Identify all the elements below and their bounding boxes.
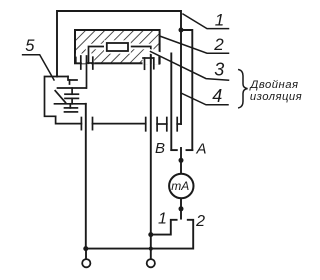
white notch right connector <box>143 54 159 64</box>
brace double insulation <box>239 70 248 108</box>
corner piece <box>157 54 161 64</box>
leader line 3 <box>151 52 229 81</box>
resistor halo <box>104 40 131 53</box>
meter bottom lead <box>180 198 182 218</box>
wire: jog to A branch <box>181 30 192 150</box>
contact B arm <box>171 149 177 151</box>
leader line 3 halo <box>151 52 163 56</box>
plate on line 4 <box>176 118 178 131</box>
switch blade <box>55 91 65 103</box>
svg-text:3: 3 <box>214 60 224 80</box>
node dot bus left <box>83 246 88 251</box>
step tick <box>69 80 71 84</box>
terminal circle left <box>82 259 90 267</box>
node dot contact1/lead <box>148 232 153 237</box>
hatch drop line <box>86 56 88 88</box>
svg-text:изоляция: изоляция <box>250 91 302 103</box>
svg-text:1: 1 <box>215 10 224 29</box>
contact A arm <box>187 149 193 151</box>
leader line 5 <box>23 55 54 80</box>
svg-text:4: 4 <box>212 86 222 106</box>
connector R bar <box>87 62 94 64</box>
right connector pin b <box>153 58 155 69</box>
svg-text:2: 2 <box>213 35 224 54</box>
wire: top measuring loop <box>57 11 181 77</box>
metal body (hatched block) <box>75 30 160 63</box>
node dot above meter <box>179 158 184 163</box>
thermostat box 5 <box>45 77 69 117</box>
heating element lead loop <box>89 47 151 64</box>
cap stem up <box>71 88 73 94</box>
box outlet wire <box>56 116 82 123</box>
capacitor (body plates) left plate <box>156 118 158 131</box>
contact bar upper <box>58 87 87 89</box>
middle horizontal wire <box>93 123 146 125</box>
node dot bus right <box>149 247 153 251</box>
left main wire <box>85 104 87 249</box>
right connector pin a <box>144 58 146 69</box>
svg-text:mA: mA <box>171 179 189 193</box>
cap2 stem <box>69 104 71 108</box>
heating element lead channel (white halo) <box>89 47 151 64</box>
milliammeter circle <box>169 174 193 198</box>
right connector bar <box>143 57 154 59</box>
node dot below meter <box>179 206 184 211</box>
node: junction dot top <box>179 28 184 33</box>
cap stem down <box>71 98 73 103</box>
wire: insulation layer line to B <box>170 54 172 151</box>
white notch left connector <box>76 54 94 64</box>
capacitor crossbar <box>157 123 167 125</box>
svg-text:В: В <box>155 140 165 157</box>
leader line 4 <box>181 93 228 105</box>
leader line 2 <box>160 36 229 53</box>
plate P3 <box>145 118 147 131</box>
svg-text:5: 5 <box>25 37 35 55</box>
capacitor in box plate 2 <box>65 97 78 99</box>
plate P1 <box>92 118 94 130</box>
svg-text:1: 1 <box>158 211 167 228</box>
capacitor in box plate 1 <box>65 93 78 95</box>
capacitor 2 plate a <box>65 107 78 109</box>
capacitor 2 plate b <box>65 111 78 113</box>
terminal stem left <box>85 249 87 259</box>
wire: crossbar joint <box>177 123 181 125</box>
plate PL <box>80 118 82 130</box>
capacitor (body plates) right plate <box>166 118 168 131</box>
connector L side <box>76 58 81 64</box>
element right lead (long, to terminal) <box>150 54 152 258</box>
leader line 1 <box>183 14 229 29</box>
wire to left main (corner) <box>55 103 86 105</box>
selector pole stub <box>180 148 182 174</box>
switch contact 1 <box>151 220 177 235</box>
wire: line 4 (insulation barrier lead) <box>180 30 182 124</box>
switch contact 2 and bottom bus <box>86 220 193 249</box>
connector R pin <box>92 57 94 69</box>
box top step <box>68 77 77 81</box>
svg-text:А: А <box>195 140 206 157</box>
svg-text:Двойная: Двойная <box>248 79 298 91</box>
terminal circle right <box>147 259 155 267</box>
connector L pin <box>80 56 82 69</box>
resistor R (heating element) <box>107 43 128 51</box>
svg-text:2: 2 <box>195 213 205 230</box>
